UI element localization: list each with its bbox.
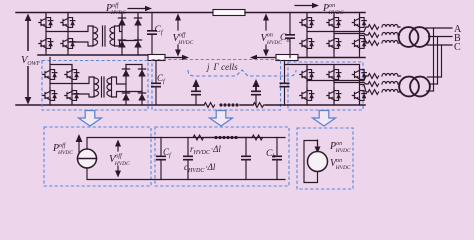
arrow: averaging map offshore (blue outline) xyxy=(79,111,102,127)
wire: onshore source loop xyxy=(304,141,318,183)
transistor: inverter2 IGBT B-top xyxy=(327,67,341,82)
capacitor: cable cell 2 shunt with voltage arrow xyxy=(251,79,261,105)
transistor: offshore bridge2 IGBT bottom-right xyxy=(65,88,79,103)
wire: bridge2 midpoint taps to transformer xyxy=(50,77,94,97)
wire: inverter2 leg B xyxy=(333,65,335,106)
wire: mid HVDC rail left section xyxy=(38,54,148,56)
wire: rectifier1 leg B xyxy=(137,13,139,56)
arrow: P_HVDC_on direction xyxy=(295,5,313,7)
transistor: inverter1 IGBT C-top xyxy=(352,15,366,30)
node: V_OWF arrowhead down xyxy=(25,97,32,105)
arrow: averaging map onshore (blue outline) xyxy=(313,111,336,127)
capacitor Cb onshore module1 xyxy=(285,13,295,58)
transistor: inverter2 IGBT C-top xyxy=(352,67,366,82)
transistor: inverter2 IGBT C-bottom xyxy=(352,88,366,103)
arrow: mid-rail current left xyxy=(250,55,257,61)
wire: inverter1 phase taps xyxy=(307,27,368,43)
dots: cable cells continuation xyxy=(219,103,238,106)
transistor: inverter1 IGBT A-top xyxy=(300,15,314,30)
dashed box: averaged cable model xyxy=(155,127,289,186)
arrow: P_on direction down xyxy=(315,140,321,154)
svg-text:C: C xyxy=(454,42,461,53)
diode: rectifier1 bottom-left xyxy=(118,38,125,48)
wire: inverter2 leg A xyxy=(306,65,308,106)
transistor: inverter2 IGBT A-top xyxy=(300,67,314,82)
wire: bottom rail to onshore module2 xyxy=(265,104,365,106)
wire: bridge1 leg A xyxy=(45,13,47,56)
capacitor: cable cell 1 shunt with voltage arrow xyxy=(191,79,201,105)
wire: rectifier1 leg A xyxy=(121,13,123,56)
wire: riser phase B to module2 xyxy=(437,37,439,85)
diode: rectifier2 top-left xyxy=(122,67,129,77)
arrow: V_HVDC_off measurement xyxy=(175,14,181,57)
wire: top HVDC rail right section xyxy=(245,12,365,14)
wire: inverter2 top rail xyxy=(285,64,360,66)
wire: source top lead xyxy=(87,138,285,150)
voltage source V_HVDC_off xyxy=(78,149,97,168)
transistor: inverter1 IGBT C-bottom xyxy=(352,36,366,51)
wire: mid HVDC rail right section xyxy=(298,57,365,59)
wire: grid phase B xyxy=(429,36,453,38)
wire: top HVDC rail left section xyxy=(16,12,213,14)
resistor: cable cell 2 series xyxy=(253,103,264,108)
wire: bridge1 midpoint taps to transformer xyxy=(46,26,93,46)
capacitor Cf module j xyxy=(151,61,161,106)
wire: bridge2 leg A xyxy=(49,65,51,106)
resistor: phase C arm module1 xyxy=(368,41,379,46)
dashed box: cable cells section xyxy=(152,60,281,111)
resistor: phase A arm module1 xyxy=(368,25,379,30)
resistor: r_HVDC section 1 (gap in rail) xyxy=(193,135,204,140)
wire: rectifier2 top rail xyxy=(126,64,142,66)
transistor: offshore bridge1 IGBT top-right xyxy=(61,15,75,30)
arrow: V_HVDC_on measurement xyxy=(263,14,269,57)
cable resistance block top xyxy=(213,10,245,16)
wire: inverter2 phase taps xyxy=(307,76,368,92)
voltage source V_HVDC_on xyxy=(308,152,328,172)
dashed box: averaged offshore source xyxy=(44,127,151,186)
wire: source bottom lead xyxy=(87,168,285,180)
capacitor: c_HVDC shunt 1 xyxy=(183,138,193,180)
arrow: P_off direction up xyxy=(76,134,83,152)
wire: inverter1 leg A xyxy=(306,13,308,58)
transistor: inverter2 IGBT A-bottom xyxy=(300,88,314,103)
wire: offshore LV bottom rail xyxy=(16,104,204,106)
inductor: phase A arm module1 xyxy=(382,25,398,28)
dots: averaged cable continuation xyxy=(214,136,237,139)
resistor: r_HVDC section 2 xyxy=(252,135,263,140)
inductor: phase A arm module2 xyxy=(382,74,398,77)
capacitor Cf offshore module1 xyxy=(147,13,157,56)
wire: rectifier2 leg A xyxy=(125,65,127,106)
transformer T1 module j (medium frequency) xyxy=(94,77,142,97)
wire: inverter1 leg B xyxy=(333,13,335,58)
wire: inverter1 leg C xyxy=(359,13,361,58)
inductor: phase C arm module2 xyxy=(382,90,398,93)
transistor: offshore bridge1 IGBT bottom-left xyxy=(39,36,53,51)
dashed box: averaged onshore source xyxy=(297,128,353,189)
diode: rectifier1 bottom-right xyxy=(134,38,141,48)
transistor: inverter1 IGBT B-bottom xyxy=(327,36,341,51)
diode: rectifier2 bottom-right xyxy=(138,91,145,101)
wire: mid rail after block with arrow right xyxy=(165,57,183,59)
transistor: inverter1 IGBT B-top xyxy=(327,15,341,30)
diode: rectifier2 bottom-left xyxy=(122,91,129,101)
wire: arm to transformer module1 xyxy=(398,27,400,43)
brace: cells group (dashed blue) xyxy=(188,70,296,76)
arrow: P_HVDC_off direction xyxy=(128,8,146,10)
transistor: inverter1 IGBT A-bottom xyxy=(300,36,314,51)
dashed box: offshore converter module j xyxy=(42,61,148,111)
resistor: phase C arm module2 xyxy=(368,90,379,95)
inductor: phase B arm module1 xyxy=(382,33,398,36)
transistor: inverter2 IGBT B-bottom xyxy=(327,88,341,103)
wire: rail between dots and cell2 xyxy=(206,137,253,139)
wire: bridge1 leg B xyxy=(67,13,69,56)
wire: module2 output phase C xyxy=(427,90,434,92)
wire: mid rail to right block xyxy=(256,57,276,59)
wire: module2 output phase A xyxy=(428,76,442,78)
transistor: offshore bridge2 IGBT bottom-left xyxy=(43,88,57,103)
wire: grid phase C xyxy=(427,44,452,46)
dashed box: onshore converter module j xyxy=(288,62,363,110)
transformer T2 grid module2 (two circles) xyxy=(399,77,430,97)
node: V_OWF measurement arrow line xyxy=(27,19,29,99)
inductor: phase C arm module1 xyxy=(382,41,398,44)
wire: inverter2 leg C xyxy=(359,65,361,106)
transformer T1 (medium frequency) xyxy=(93,26,138,46)
resistor: phase B arm module1 xyxy=(368,33,379,38)
resistor: phase A arm module2 xyxy=(368,74,379,79)
wire: module2 output phase B xyxy=(430,83,438,85)
wire: grid phase A xyxy=(426,27,452,29)
wire: cells bottom rail segment xyxy=(240,104,253,106)
arrow: mid-rail current right xyxy=(182,55,189,61)
resistor: phase B arm module2 xyxy=(368,82,379,87)
capacitor Cf averaged xyxy=(156,138,166,180)
transformer T2 grid module1 (two circles) xyxy=(399,27,430,47)
transistor: offshore bridge2 IGBT top-left xyxy=(43,67,57,82)
node: V_OWF arrowhead up xyxy=(25,14,32,22)
arrow: averaging map cells (blue outline) xyxy=(210,111,233,127)
resistor: cable cell 1 series xyxy=(204,103,215,108)
capacitor: c_HVDC shunt 2 xyxy=(241,138,251,180)
diode: rectifier1 top-left xyxy=(118,16,125,26)
wire: bridge2 leg B xyxy=(71,65,73,106)
transistor: offshore bridge1 IGBT top-left xyxy=(39,15,53,30)
diode: rectifier2 top-right xyxy=(138,67,145,77)
capacitor Cb averaged xyxy=(272,138,282,180)
wire: riser phase A to module2 xyxy=(433,28,435,91)
wire: bridge2 top rail xyxy=(50,58,72,65)
cable resistance block mid-rail right xyxy=(276,55,298,61)
capacitor Cb module j xyxy=(280,61,290,106)
cable resistance block mid-rail left xyxy=(148,55,165,61)
wire: arm to transformer module2 xyxy=(398,76,401,92)
diode: rectifier1 top-right xyxy=(134,16,141,26)
inductor: phase B arm module2 xyxy=(382,82,398,85)
wire: rectifier2 leg B xyxy=(141,65,143,106)
arrow: V_HVDC_off measurement bottom xyxy=(115,140,121,178)
transistor: offshore bridge2 IGBT top-right xyxy=(65,67,79,82)
wire: riser phase C to module2 xyxy=(441,45,443,77)
transistor: offshore bridge1 IGBT bottom-right xyxy=(61,36,75,51)
